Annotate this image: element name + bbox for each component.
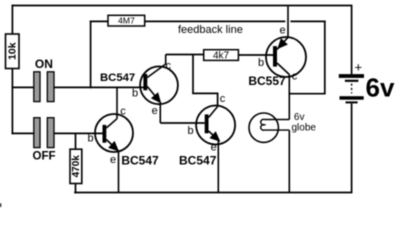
svg-text:6v: 6v (294, 112, 305, 123)
wire right feedback loop down to collector node (289, 21, 325, 93)
wire 470k bottom stub (75, 184, 77, 193)
lamp filament and stubs (261, 119, 290, 130)
wire battery top (351, 6, 353, 75)
svg-text:b: b (132, 87, 138, 99)
wire 4k7 junction down to Q2 collector (193, 55, 218, 106)
wire top rail (12, 5, 351, 7)
svg-text:c: c (166, 60, 172, 72)
wire battery bottom (351, 104, 353, 193)
capacitor ON plate right (47, 72, 54, 102)
resistor R1 10k (6, 34, 20, 69)
transistor Q1 BC547 (top) (100, 55, 178, 124)
svg-text:b: b (258, 57, 264, 69)
wire Q1 collector to 4k7 (166, 54, 204, 56)
svg-text:c: c (292, 70, 298, 82)
wire ON cap right to Q1 base (54, 86, 143, 88)
wire Q4 collector down to lamp (288, 75, 290, 120)
battery B1 6v (339, 6, 395, 193)
wire 4M7 left lead (91, 20, 108, 22)
transistor Q2 BC547 (middle) (179, 93, 235, 193)
svg-text:OFF: OFF (33, 151, 56, 163)
svg-text:c: c (220, 93, 226, 105)
resistor R4 4k7 (204, 50, 239, 62)
transistor Q4 BC557 (PNP) (248, 6, 306, 120)
battery plate thin short bottom (346, 101, 358, 103)
resistor R3 470k (70, 149, 82, 183)
svg-text:BC547: BC547 (121, 153, 159, 167)
wire Q1 emitter to Q2 base (160, 122, 204, 124)
svg-text:4k7: 4k7 (213, 50, 230, 61)
svg-text:feedback line: feedback line (178, 24, 243, 36)
svg-text:+: + (355, 59, 363, 74)
wire 4M7 drop (90, 21, 92, 87)
resistor R2 4M7 (108, 15, 145, 26)
svg-text:6v: 6v (366, 73, 395, 103)
svg-text:c: c (120, 106, 126, 118)
wire 470k top stub (75, 133, 77, 149)
lamp 6v globe (249, 112, 316, 193)
svg-text:b: b (187, 125, 193, 137)
battery plate thick long top (339, 74, 364, 78)
battery dashed link (351, 84, 353, 94)
battery plate thin short top (345, 80, 359, 82)
svg-text:e: e (211, 142, 217, 154)
svg-text:10k: 10k (6, 42, 18, 60)
svg-text:BC547: BC547 (100, 72, 135, 84)
wire lamp bottom to rail (288, 130, 290, 192)
svg-text:e: e (279, 24, 285, 36)
wire Q4 emitter up to top rail (287, 6, 289, 38)
corner tick (0, 203, 1, 207)
svg-text:e: e (152, 105, 158, 117)
wire feedback line right segment (291, 20, 325, 22)
svg-text:b: b (87, 133, 93, 145)
wire Q3 collector up to Q1 base node (116, 87, 118, 118)
capacitor ON plate left (34, 72, 40, 102)
wire 4k7 to BC557 base (238, 54, 273, 56)
capacitor OFF plate left (34, 118, 40, 148)
wire ON cap left (12, 86, 33, 88)
wire OFF cap left (12, 132, 33, 134)
wire bottom rail (75, 192, 352, 194)
svg-text:4M7: 4M7 (118, 16, 135, 26)
svg-text:e: e (110, 154, 116, 166)
wire feedback line left segment (145, 20, 285, 22)
svg-text:470k: 470k (71, 155, 82, 178)
battery plate thick long bottom (340, 96, 364, 100)
wire left drop to 10k (11, 6, 13, 35)
svg-text:globe: globe (292, 123, 317, 134)
svg-text:BC547: BC547 (179, 153, 217, 167)
transistor Q3 BC547 (bottom left) (87, 87, 159, 192)
wire left vertical (11, 69, 13, 134)
capacitor OFF plate right (47, 118, 54, 148)
wire OFF cap right to Q3 base (54, 132, 103, 134)
svg-text:ON: ON (35, 57, 53, 71)
svg-text:BC557: BC557 (248, 74, 286, 88)
